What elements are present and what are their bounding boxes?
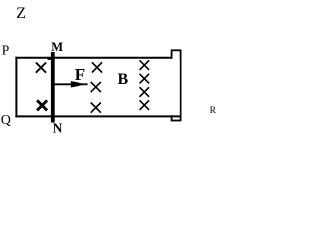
rail-rod junction nub	[48, 59, 51, 60]
flux cross x2 (left column bottom, bold)	[37, 100, 47, 110]
flux cross x1 (left column top)	[36, 63, 46, 73]
svg-text:Q: Q	[1, 113, 11, 128]
field region fill	[17, 59, 179, 116]
svg-text:F: F	[75, 65, 85, 84]
resistor R (box on right rail)	[172, 50, 181, 120]
conducting rod MN	[51, 52, 55, 123]
flux cross r4 (right column)	[140, 100, 150, 110]
flux cross r1 (right column)	[140, 60, 150, 70]
svg-text:N: N	[53, 121, 63, 136]
left boundary wire	[15, 57, 17, 118]
bottom rail Q-N	[15, 115, 181, 117]
flux cross m1 (middle column)	[92, 62, 102, 72]
flux cross r3 (right column)	[140, 87, 150, 97]
flux cross r2 (right column)	[140, 74, 150, 84]
svg-text:R: R	[210, 106, 217, 116]
svg-text:B: B	[118, 71, 129, 88]
flux cross m2 (middle column)	[91, 82, 101, 92]
flux cross m3 (middle column)	[91, 103, 101, 113]
svg-text:Z: Z	[16, 5, 26, 22]
svg-text:P: P	[2, 42, 10, 57]
svg-text:M: M	[51, 40, 63, 54]
top rail P-M	[15, 57, 172, 59]
force arrow F	[55, 81, 88, 87]
